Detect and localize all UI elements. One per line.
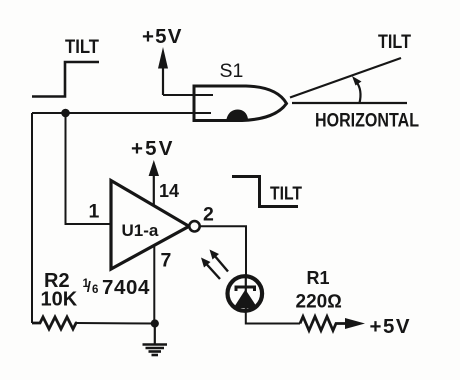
line tilted position (diagonal) xyxy=(290,58,401,98)
wire R2 to ground node xyxy=(77,322,155,325)
wire LED to R1 xyxy=(246,311,300,324)
junction node A xyxy=(61,109,70,118)
svg-text:7404: 7404 xyxy=(102,276,150,299)
arrow light emission 1 xyxy=(214,255,228,272)
switch S1 mercury ball xyxy=(227,110,249,120)
svg-text:7: 7 xyxy=(161,250,172,272)
resistor R2 zigzag xyxy=(32,317,77,329)
svg-text:TILT: TILT xyxy=(65,37,99,58)
svg-text:220Ω: 220Ω xyxy=(296,292,342,313)
svg-text:S1: S1 xyxy=(220,60,244,82)
svg-text:+5V: +5V xyxy=(370,315,412,338)
arrow up +5V pin14 xyxy=(153,172,155,206)
svg-text:U1-a: U1-a xyxy=(122,221,159,240)
waveform TILT falling-edge (output signal) xyxy=(232,177,298,207)
svg-text:1: 1 xyxy=(89,201,100,223)
line horizontal position xyxy=(292,102,407,104)
svg-text:TILT: TILT xyxy=(378,32,411,53)
arrow to +5V (right) xyxy=(345,318,365,329)
svg-text:R1: R1 xyxy=(307,268,330,288)
resistor R1 zigzag xyxy=(300,317,346,331)
svg-text:+5V: +5V xyxy=(131,137,175,160)
LED anode triangle xyxy=(234,290,258,309)
svg-text:TILT: TILT xyxy=(270,183,303,204)
arrow up +5V top xyxy=(162,60,164,95)
svg-text:10K: 10K xyxy=(41,289,78,311)
switch S1 left end cap xyxy=(193,85,196,123)
inverter bubble xyxy=(189,221,199,231)
svg-text:14: 14 xyxy=(159,181,179,201)
svg-text:+5V: +5V xyxy=(142,25,183,48)
svg-text:6: 6 xyxy=(92,284,98,296)
wire node A down to pin 1 xyxy=(66,113,114,224)
junction ground node xyxy=(151,319,159,327)
arrow light emission 2 xyxy=(206,263,221,279)
waveform TILT rising-edge (input signal, top left) xyxy=(32,62,99,97)
svg-text:2: 2 xyxy=(203,204,214,226)
LED internal wire xyxy=(245,276,247,311)
wire left vertical down to R2 xyxy=(31,113,33,323)
ground xyxy=(154,324,156,345)
op-amp U1-a (7404 inverter triangle) xyxy=(111,181,189,270)
wire output pin 2 to LED xyxy=(200,226,246,277)
wire top horizontal (node A to switch S1 lower contact) xyxy=(32,112,211,114)
wire pin 7 to ground xyxy=(153,246,155,325)
LED cathode bar xyxy=(236,287,255,291)
tilt switch S1 body (mercury capsule) xyxy=(194,86,287,121)
arrow angle indicator xyxy=(357,82,361,103)
wire +5V to switch upper contact xyxy=(163,94,213,96)
LED D1 circle xyxy=(228,276,263,311)
svg-text:HORIZONTAL: HORIZONTAL xyxy=(315,111,419,132)
